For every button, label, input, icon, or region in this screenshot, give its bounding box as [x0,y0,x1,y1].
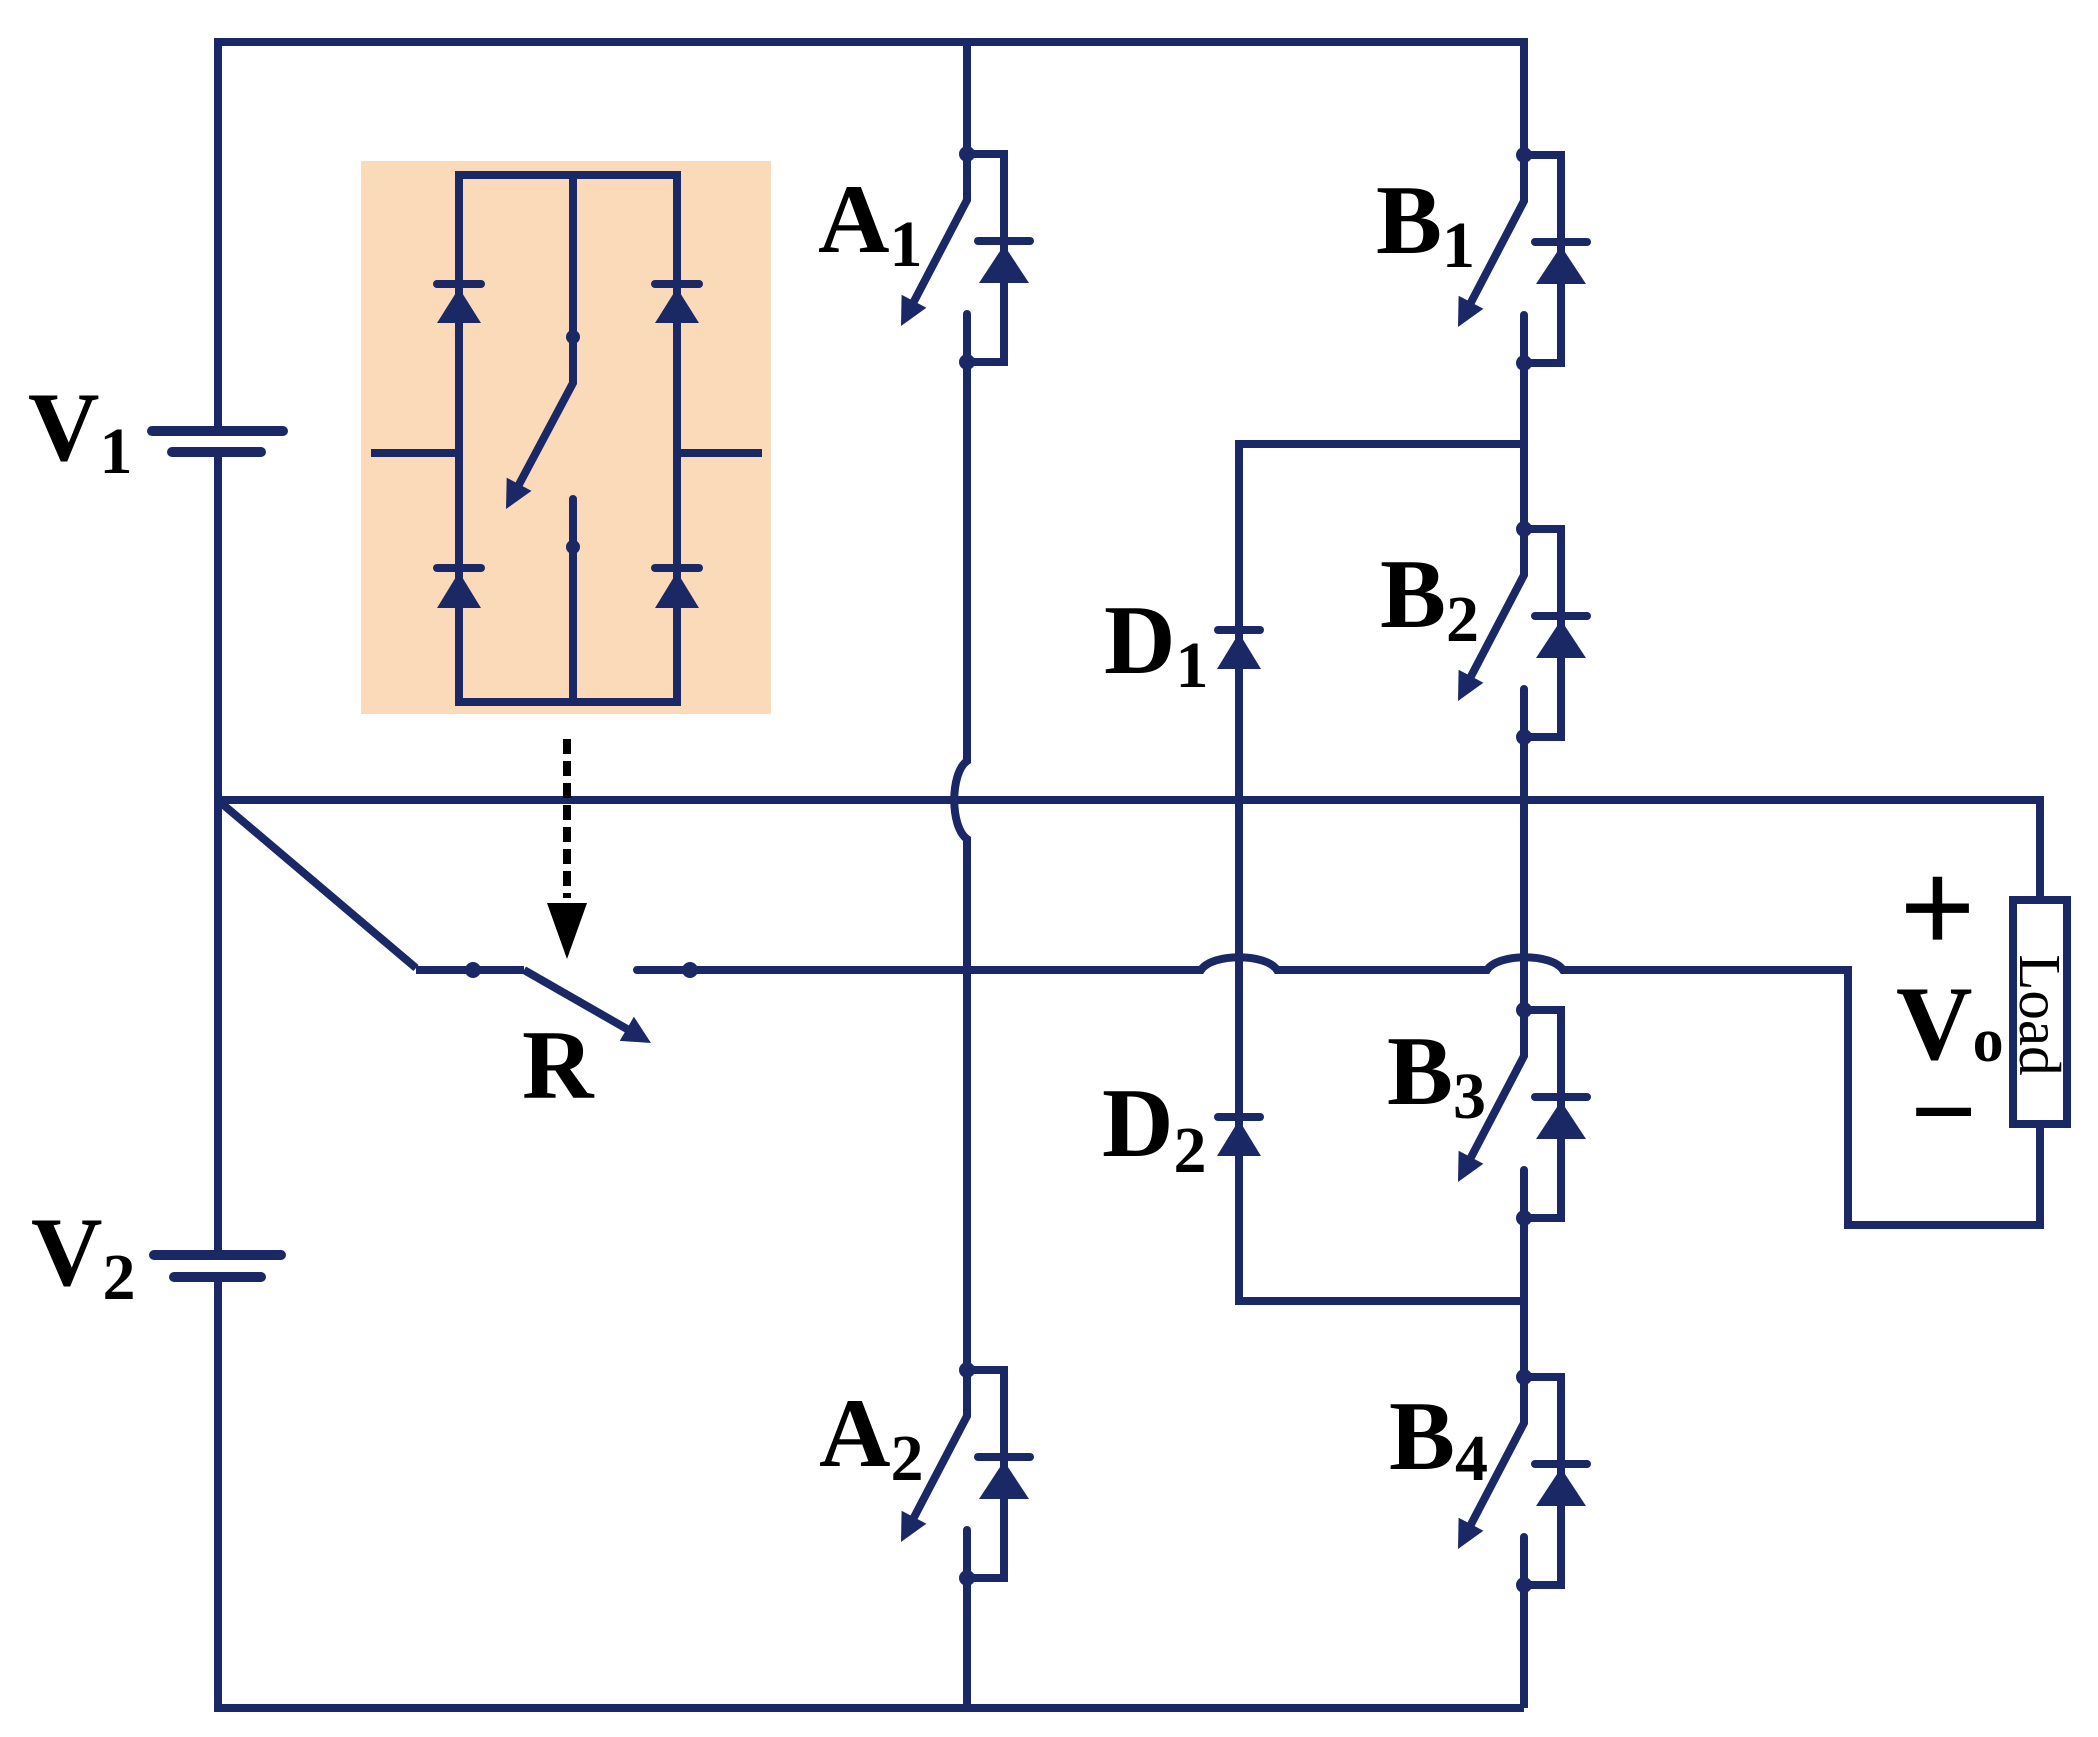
svg-text:+: + [1899,834,1976,983]
svg-text:−: − [1910,1046,1977,1177]
svg-text:Load: Load [2007,954,2073,1075]
svg-text:R: R [522,1011,595,1120]
